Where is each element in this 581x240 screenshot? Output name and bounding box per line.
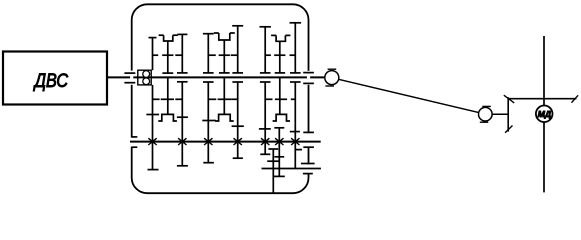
- propeller shaft (driveshaft): [339, 79, 479, 112]
- gear z6 pair: countershaft to output shaft: [274, 127, 284, 129]
- countershaft II: [130, 141, 321, 143]
- X spline joint, gear z7 on countershaft: [291, 138, 299, 145]
- bevel mesh tick (pinion top / crown left): [504, 95, 514, 103]
- gear line z1 lower part to countershaft: [152, 85, 154, 170]
- X spline joint, gear z1 pair on countershaft: [148, 138, 156, 145]
- gear z2: [177, 33, 187, 35]
- gearbox housing: [132, 4, 309, 193]
- PTO shaft through housing bottom: [268, 148, 278, 150]
- X spline joint, gear z4 pair on countershaft: [234, 138, 242, 145]
- shift yoke 1: [159, 34, 164, 36]
- universal joint 2: [479, 107, 493, 121]
- bearing marks, main shaft exit through right wall: [303, 72, 314, 74]
- gear z3: [203, 33, 214, 35]
- shift bracket 1: [158, 114, 177, 121]
- engine block DVS (ДВС): [3, 52, 107, 105]
- bearing marks, output shaft at right wall: [301, 163, 315, 165]
- output shaft III: [262, 168, 321, 170]
- housing wall gaps where shafts pass: [130, 71, 133, 85]
- X spline joint, gear z3 pair on countershaft: [204, 138, 212, 145]
- bearing marks, countershaft at right wall: [303, 131, 314, 133]
- gear z5: [260, 26, 271, 28]
- double-row input bearing: [138, 70, 151, 85]
- gear z1: [149, 37, 157, 39]
- gear line z2 lower part to countershaft: [181, 82, 183, 166]
- shift yoke 2: [214, 32, 219, 34]
- svg-text:МД: МД: [538, 109, 551, 119]
- bevel tick crown right end: [572, 95, 579, 102]
- differential MD circle: [536, 106, 553, 123]
- svg-text:ДВС: ДВС: [33, 70, 69, 92]
- shift bracket 3: [273, 114, 290, 121]
- shift yoke 3: [271, 34, 276, 36]
- input shaft I: [107, 76, 325, 78]
- X spline joint, gear z2 pair on countershaft: [178, 138, 186, 145]
- X spline joint, gear z5 pair on countershaft: [261, 138, 269, 145]
- bevel crown gear: [508, 98, 576, 100]
- bearing marks, countershaft at left wall: [132, 136, 138, 138]
- drive axle: [543, 36, 545, 192]
- gear z4: [232, 25, 243, 27]
- clutch / bearing marks at input shaft through left wall: [124, 72, 135, 74]
- bevel pinion gear: [507, 97, 509, 131]
- universal joint 1: [325, 71, 339, 85]
- gear z7: [290, 22, 302, 24]
- shift bracket 2: [215, 114, 234, 121]
- final drive pinion shaft: [492, 113, 508, 115]
- bevel tick pinion bottom: [505, 126, 512, 133]
